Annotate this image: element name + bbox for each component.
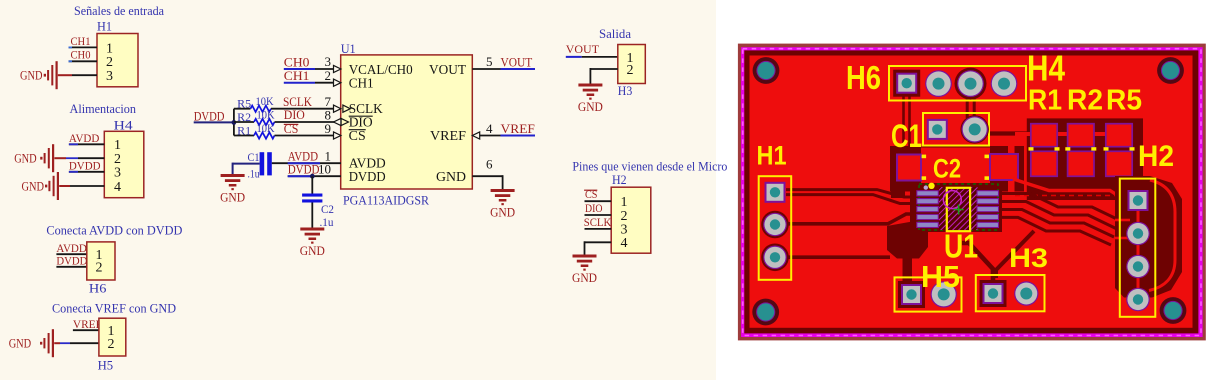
svg-text:GND: GND [300,244,325,258]
U1 smd pin pad right 10 [977,191,999,196]
resistor R1 [254,132,275,138]
wire to resistor R2 [234,121,254,123]
trace bundle to H3 pad2 [996,231,1034,278]
svg-text:H1: H1 [97,19,112,34]
svg-text:5: 5 [486,54,493,69]
C1 pad 1 [927,119,948,140]
svg-text:2: 2 [108,337,115,352]
junction dot DVDD/C2 [310,174,315,179]
wire C1 right to AVDD / U1 pin 1 [272,162,341,164]
svg-text:.1u: .1u [248,168,260,180]
trace H1 pad3 to ground blob [786,255,890,259]
svg-text:H4: H4 [1027,48,1065,89]
svg-text:H6: H6 [846,59,881,96]
junction dot [232,120,237,125]
svg-text:4: 4 [621,236,628,251]
svg-text:1: 1 [621,195,628,210]
U1 smd pin pad right 8 [977,207,999,212]
wire AVDD to H4 pin 1 [69,143,104,145]
ground [490,189,515,220]
input arrows U1 pin 7 [334,105,341,112]
H2 pad 4 [1126,288,1150,312]
resistor R5 [251,106,272,112]
svg-text:DIO: DIO [585,201,603,215]
C1 pad 2 [961,115,989,143]
U1 footprint copper backing [910,183,1002,232]
H4 pad 2 [925,70,952,97]
svg-text:3: 3 [106,69,113,84]
U1 pin1 marker circle [943,191,961,209]
resistor R1 silkscreen ticks [1029,147,1034,150]
wire R5 to net SCLK [271,108,334,110]
svg-text:2: 2 [106,55,113,70]
svg-text:AVDD: AVDD [69,131,100,145]
svg-text:R5: R5 [1106,85,1142,117]
capacitor C2 right pad [990,154,1018,180]
svg-text:DVDD: DVDD [288,163,320,177]
capacitor C1 [260,152,265,175]
svg-text:VCAL/CH0: VCAL/CH0 [349,62,413,77]
connector H3 outline [976,275,1045,311]
wire CH1 to U1 pin 2 [284,82,315,84]
svg-text:CH1: CH1 [349,76,374,91]
wire junction vertical [233,109,235,136]
wire VREF to H5 pin 1 [73,329,99,331]
H2 pad 1 [1128,190,1149,211]
input arrow U1 pin 4 (VREF) [472,132,479,139]
red dashed ratsnest line [1015,195,1131,197]
svg-text:H4: H4 [114,117,134,132]
H2 copper pour [1115,176,1182,298]
svg-text:H1: H1 [757,141,787,171]
U1 courtyard (green dashed) [919,184,998,230]
svg-text:Conecta VREF con GND: Conecta VREF con GND [52,301,176,316]
connector H4 [104,131,144,197]
svg-text:H2: H2 [1138,140,1174,173]
connector H2 outline [1120,179,1156,317]
svg-text:4: 4 [114,180,121,195]
svg-text:DVDD: DVDD [56,254,87,268]
H5 pad 1 [898,281,925,308]
svg-text:4: 4 [486,121,493,136]
svg-text:CH0: CH0 [284,55,310,69]
ground [9,329,54,357]
PCB board surface [750,56,1193,328]
connector C1 outline [923,113,989,146]
wire AVDD to H6 pin 1 [56,253,86,255]
ground [20,61,58,89]
resistor R5 silkscreen ticks [1104,147,1109,150]
ground [578,84,603,115]
H3 pad 2 [1014,281,1038,305]
ground [300,228,325,259]
U1 smd pin pad right 7 [977,214,999,219]
wire CH0 to H1 pin 2 [69,60,98,62]
svg-text:Conecta AVDD con DVDD: Conecta AVDD con DVDD [46,222,182,237]
trace U1 area to H3 pad1 [962,243,993,280]
wire ground to H1 pin 3 [58,74,72,76]
svg-text:2: 2 [114,152,121,167]
svg-text:H3: H3 [1009,243,1048,273]
H4 pad 3 [955,68,987,100]
svg-text:H6: H6 [89,281,107,296]
svg-text:2: 2 [96,261,103,276]
U1 smd pin pad left 3 [917,207,939,212]
svg-text:PGA113AIDGSR: PGA113AIDGSR [343,192,429,207]
red trace across resistor zone bottom [1013,179,1120,197]
trace H1 pad1 to U1 (pair) [786,190,918,197]
svg-text:GND: GND [572,271,597,285]
resistor R2 [254,119,275,125]
U1 origin cross [954,205,964,215]
svg-text:2: 2 [325,68,332,83]
wire DVDD to resistor junction [194,121,234,123]
signal traces U1 to H2 [998,194,1119,221]
U1 smd pin pad right 9 [977,199,999,204]
svg-text:VREF: VREF [430,128,467,143]
svg-text:AVDD: AVDD [288,150,318,164]
wire CH0 to U1 pin 3 [284,68,315,70]
resistor zone copper pour [1027,118,1150,200]
svg-text:H3: H3 [618,83,633,98]
wire to resistor R1 [234,135,254,137]
wire H2 pin 4 to ground [585,241,612,243]
wire DVDD to U1 pin 10 [288,175,341,177]
svg-text:H5: H5 [98,358,114,373]
svg-text:DVDD: DVDD [349,169,386,184]
wire DVDD to H6 pin 2 [56,266,86,268]
resistor R2 silkscreen ticks [1065,147,1070,150]
svg-text:VOUT: VOUT [501,55,533,69]
svg-text:C2: C2 [321,204,334,216]
svg-text:.1u: .1u [320,217,334,229]
connector H2 [611,187,651,253]
svg-text:CH1: CH1 [71,34,91,48]
H4 pad 4 [991,70,1018,97]
U1 smd pin pad left 1 [917,191,939,196]
svg-text:GND: GND [20,69,43,83]
PCB board outline (outer trim) [738,44,1206,341]
connector H1 [97,34,138,87]
ground [22,172,60,200]
wire H3 pin 2 to ground [590,68,617,70]
mounting hole pad [1157,57,1184,84]
svg-text:CH0: CH0 [71,48,91,62]
wire VOUT to H3 pin 1 [566,56,582,58]
resistor R1 top pad [1031,124,1057,147]
wire ground to H5 pin 2 [54,342,60,344]
capacitor C2 [302,194,322,197]
capacitor C2 left pad [897,155,921,181]
svg-text:R1: R1 [1028,85,1062,117]
svg-text:C1: C1 [891,118,922,154]
C2 silkscreen ticks [922,155,927,159]
ground [572,255,597,286]
trace H1 pad2 to U1 [786,214,918,224]
svg-text:CS: CS [349,128,366,143]
connector H5 [99,318,126,356]
svg-text:Señales de entrada: Señales de entrada [74,3,164,18]
input arrow U1 pin 2 [334,79,341,86]
red traces inside H2 pour [1149,180,1175,291]
svg-text:Salida: Salida [599,26,631,41]
mounting hole pad [752,299,779,326]
connector H6 [87,242,115,280]
svg-text:CH1: CH1 [284,69,310,83]
svg-text:CS: CS [585,187,598,201]
H1 pad 1 [765,182,786,203]
connector H3 [618,45,646,84]
trace H4 pin3 to C1 pad 2 [966,96,969,118]
svg-text:VREF: VREF [501,122,535,136]
resistor R2 bottom pad [1068,151,1094,176]
U1 smd pin pad left 2 [917,199,939,204]
ground [220,174,245,205]
wire C1 left to ground [233,163,260,165]
H4 pad 1 [893,70,920,97]
wire CS to H2 pin 1 [585,200,612,202]
svg-text:10K: 10K [257,123,276,135]
connector H4/H6 header outline [889,66,1026,101]
ground [14,144,54,172]
bidirectional arrows U1 pin 8 [334,118,341,125]
svg-text:GND: GND [220,191,245,205]
svg-text:DVDD: DVDD [69,159,101,173]
svg-text:H2: H2 [612,172,627,187]
U1 smd pin pad left 5 [917,222,939,227]
svg-text:DIO: DIO [284,108,305,122]
resistor R2 top pad [1068,124,1094,147]
PCB keepout border (magenta dashed) [741,47,1203,337]
svg-text:SCLK: SCLK [283,95,312,109]
svg-text:GND: GND [436,169,466,184]
svg-text:GND: GND [490,206,515,220]
svg-text:3: 3 [325,54,332,69]
svg-text:1: 1 [106,41,113,56]
wire U1 pin 6 to ground [472,175,502,177]
svg-text:U1: U1 [341,41,356,56]
wire U1 pin 5 to VOUT [472,68,500,70]
U1 silkscreen outline [947,188,970,231]
wire R2 to net DIO [275,121,335,123]
svg-text:2: 2 [627,63,634,78]
H1 pad 3 [761,243,789,271]
trace C1 pad2 to resistor rail [986,131,1030,135]
wire junction to C2 [311,176,313,193]
mounting hole pad [1160,297,1187,324]
connector H1 outline [759,176,792,280]
H2 pad 3 [1126,255,1150,279]
H2 pad 2 [1126,222,1150,246]
svg-text:VOUT: VOUT [566,42,600,56]
wire to resistor R5 [234,108,251,110]
wire C2 to ground [311,203,313,228]
DVDD rail through resistor tops (red trace) [1015,132,1132,136]
input arrow U1 pin 3 [334,65,341,72]
svg-text:SCLK: SCLK [584,215,612,229]
svg-text:H5: H5 [921,259,960,294]
svg-text:GND: GND [22,179,45,193]
resistor R5 bottom pad [1106,151,1132,176]
svg-text:2: 2 [621,209,628,224]
chip U1 body [341,55,473,189]
ground blob under U1 left [887,221,928,259]
U1 smd pin pad right 6 [977,222,999,227]
svg-text:GND: GND [578,100,603,114]
wire CH1 to H1 pin 1 [69,46,98,48]
chip U1 footprint hatched body [939,187,978,230]
svg-text:R2: R2 [1067,85,1103,117]
wire SCLK to H2 pin 3 [585,228,612,230]
svg-text:C2: C2 [933,154,961,184]
silkscreen dot near C2 [928,183,934,189]
svg-text:VOUT: VOUT [429,62,467,77]
connector H5 outline [895,277,962,311]
H1 pad 2 [761,211,789,239]
H5 pad 2 [931,281,957,307]
PCB inner maroon frame [744,50,1198,333]
trace H4 pin1 to C2 left pad [902,94,905,152]
C2 footprint region [890,146,1024,192]
svg-text:VREF: VREF [73,317,102,331]
wire ground to H4 pin 4 [59,185,70,187]
wire DVDD to H4 pin 3 [69,171,104,173]
svg-text:6: 6 [486,157,493,172]
svg-text:Alimentacion: Alimentacion [70,101,137,116]
resistor R5 top pad [1106,124,1132,147]
U1 smd pin pad left 4 [917,214,939,219]
svg-text:1: 1 [114,138,121,153]
input arrow U1 pin 9 [334,132,341,139]
trace blob to H5 pad1 [903,250,913,283]
H3 pad 1 [980,280,1007,307]
svg-text:GND: GND [9,337,32,351]
wire U1 pin 4 to VREF [480,135,501,137]
svg-text:C1: C1 [248,152,260,164]
wire ground to H4 pin 2 [54,157,66,159]
wire DIO to H2 pin 2 [585,214,612,216]
resistor R1 bottom pad [1031,151,1057,176]
svg-text:9: 9 [325,121,332,136]
svg-text:3: 3 [114,166,121,181]
svg-text:GND: GND [14,152,37,166]
svg-text:10K: 10K [257,109,276,121]
svg-text:Pines que vienen desde el Micr: Pines que vienen desde el Micro [572,159,727,174]
mounting hole pad [753,57,780,84]
wire R1 to net CS [275,135,335,137]
